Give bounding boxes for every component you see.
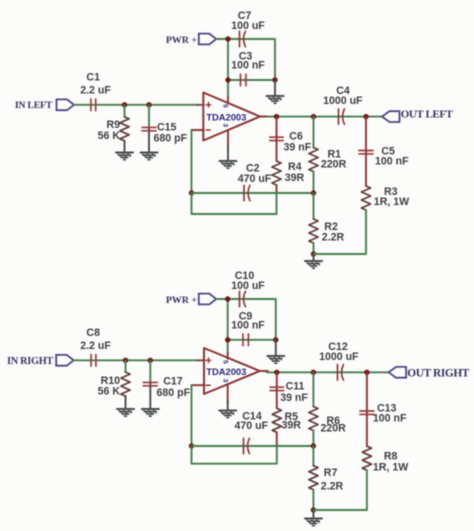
node decouple-R	[272, 77, 277, 82]
svg-text:OUT RIGHT: OUT RIGHT	[407, 367, 470, 379]
node feedback	[189, 443, 194, 448]
capacitor C6	[270, 117, 312, 154]
svg-text:2.2 uF: 2.2 uF	[80, 84, 111, 96]
capacitor C8	[80, 327, 111, 366]
op-amp U2 TDA2003	[192, 348, 268, 403]
svg-text:R8: R8	[384, 450, 398, 462]
resistor R8	[362, 414, 408, 474]
svg-text:OUT LEFT: OUT LEFT	[401, 109, 454, 121]
wire output net	[267, 371, 389, 373]
node input-A	[122, 102, 127, 107]
resistor R3	[361, 153, 409, 210]
ground	[220, 146, 237, 168]
node out-2	[311, 370, 316, 375]
svg-text:470 uF: 470 uF	[235, 420, 269, 432]
wire feedback line	[192, 445, 314, 447]
node input-B	[146, 102, 151, 107]
node bottom	[311, 507, 316, 512]
svg-text:56 K: 56 K	[98, 130, 121, 142]
svg-text:C1: C1	[86, 72, 100, 84]
svg-text:R7: R7	[324, 467, 338, 479]
node out-1	[274, 370, 279, 375]
node decouple-L	[225, 77, 230, 82]
svg-text:220R: 220R	[321, 423, 347, 435]
connector PWR+ LEFT	[166, 34, 216, 46]
svg-text:39 nF: 39 nF	[280, 392, 308, 404]
svg-text:220R: 220R	[321, 159, 347, 171]
ground	[219, 401, 236, 418]
wire PWR net	[216, 299, 275, 353]
ground	[305, 510, 322, 526]
svg-text:100 nF: 100 nF	[231, 60, 265, 72]
svg-text:TDA2003: TDA2003	[206, 112, 246, 123]
svg-text:100 nF: 100 nF	[231, 320, 265, 332]
capacitor C12	[319, 341, 359, 380]
wire zobel return	[313, 470, 367, 510]
connector OUT RIGHT	[389, 367, 470, 380]
svg-text:1R, 1W: 1R, 1W	[373, 462, 408, 474]
ground	[117, 409, 134, 416]
wire feedback vertical	[191, 385, 193, 446]
node input-B	[148, 358, 153, 363]
svg-text:IN RIGHT: IN RIGHT	[7, 356, 53, 367]
svg-text:C11: C11	[286, 381, 305, 393]
ground	[267, 340, 284, 363]
node out-1	[274, 114, 279, 119]
capacitor C11	[270, 372, 308, 404]
svg-text:100 nF: 100 nF	[375, 156, 409, 168]
capacitor C9	[231, 311, 265, 346]
capacitor C17	[143, 360, 190, 409]
svg-text:PWR +: PWR +	[166, 295, 198, 306]
resistor R1	[309, 117, 347, 193]
svg-text:39 nF: 39 nF	[284, 141, 312, 153]
node fb-right	[311, 190, 316, 195]
svg-text:2.2R: 2.2R	[321, 481, 344, 493]
svg-text:C8: C8	[86, 327, 100, 339]
resistor R9	[98, 105, 129, 153]
node out-3	[363, 114, 368, 119]
wire zobel return	[314, 210, 367, 254]
node decouple-R	[273, 337, 278, 342]
node bottom	[311, 251, 316, 256]
capacitor C5	[359, 117, 409, 168]
op-amp U1 TDA2003	[192, 93, 269, 149]
svg-text:1000 uF: 1000 uF	[323, 95, 363, 107]
node fb-right	[311, 443, 316, 448]
svg-text:39R: 39R	[282, 420, 302, 432]
capacitor C10	[231, 270, 265, 307]
wire output net	[267, 116, 382, 118]
svg-text:100 uF: 100 uF	[231, 280, 265, 292]
svg-text:2.2 uF: 2.2 uF	[80, 340, 111, 352]
ground	[305, 254, 322, 268]
svg-text:680 pF: 680 pF	[154, 133, 188, 145]
wire feedback loop	[192, 193, 277, 214]
node PWR	[225, 36, 230, 41]
svg-text:2.2R: 2.2R	[322, 232, 345, 244]
capacitor C7	[231, 10, 265, 47]
wire feedback loop	[192, 446, 277, 464]
svg-text:100 uF: 100 uF	[231, 20, 265, 32]
connector OUT LEFT	[382, 109, 454, 122]
svg-text:3: 3	[221, 379, 228, 383]
svg-text:680 pF: 680 pF	[157, 387, 191, 399]
wire feedback vertical	[191, 130, 193, 193]
svg-text:C17: C17	[163, 376, 183, 388]
svg-text:C15: C15	[157, 121, 177, 133]
svg-text:5: 5	[222, 104, 229, 108]
capacitor C13	[360, 372, 407, 424]
wire feedback line	[192, 192, 314, 194]
resistor R5	[272, 390, 301, 446]
ground	[142, 409, 159, 416]
connector PWR+ RIGHT	[166, 294, 216, 306]
capacitor C2	[238, 162, 272, 200]
resistor R10	[98, 360, 130, 409]
ground	[267, 80, 284, 103]
wire input net	[74, 104, 197, 106]
resistor R7	[309, 446, 344, 510]
resistor R2	[309, 193, 345, 254]
svg-text:1R, 1W: 1R, 1W	[374, 196, 409, 208]
capacitor C1	[80, 72, 111, 111]
svg-text:TDA2003: TDA2003	[206, 366, 246, 377]
node out-2	[311, 114, 316, 119]
svg-text:IN LEFT: IN LEFT	[15, 100, 53, 111]
ground	[116, 153, 133, 160]
wire input net	[74, 359, 198, 361]
capacitor C15	[142, 105, 188, 153]
connector IN LEFT	[15, 99, 74, 111]
node input-A	[123, 358, 128, 363]
resistor R4	[272, 140, 305, 193]
svg-text:39R: 39R	[285, 172, 305, 184]
resistor R6	[309, 372, 346, 446]
ground	[141, 153, 158, 160]
node PWR	[225, 296, 230, 301]
wire PWR net	[216, 39, 275, 98]
svg-text:PWR +: PWR +	[166, 35, 198, 46]
svg-text:3: 3	[222, 123, 229, 127]
svg-text:100 nF: 100 nF	[373, 413, 407, 425]
capacitor C4	[323, 85, 363, 124]
capacitor C14	[235, 411, 269, 454]
node decouple-L	[225, 337, 230, 342]
svg-text:56 K: 56 K	[98, 386, 121, 398]
svg-text:1000 uF: 1000 uF	[319, 351, 359, 363]
capacitor C3	[231, 51, 265, 86]
svg-text:5: 5	[221, 360, 228, 364]
connector IN RIGHT	[7, 355, 74, 367]
node out-3	[364, 370, 369, 375]
node feedback	[189, 190, 194, 195]
svg-text:470 uF: 470 uF	[238, 173, 272, 185]
